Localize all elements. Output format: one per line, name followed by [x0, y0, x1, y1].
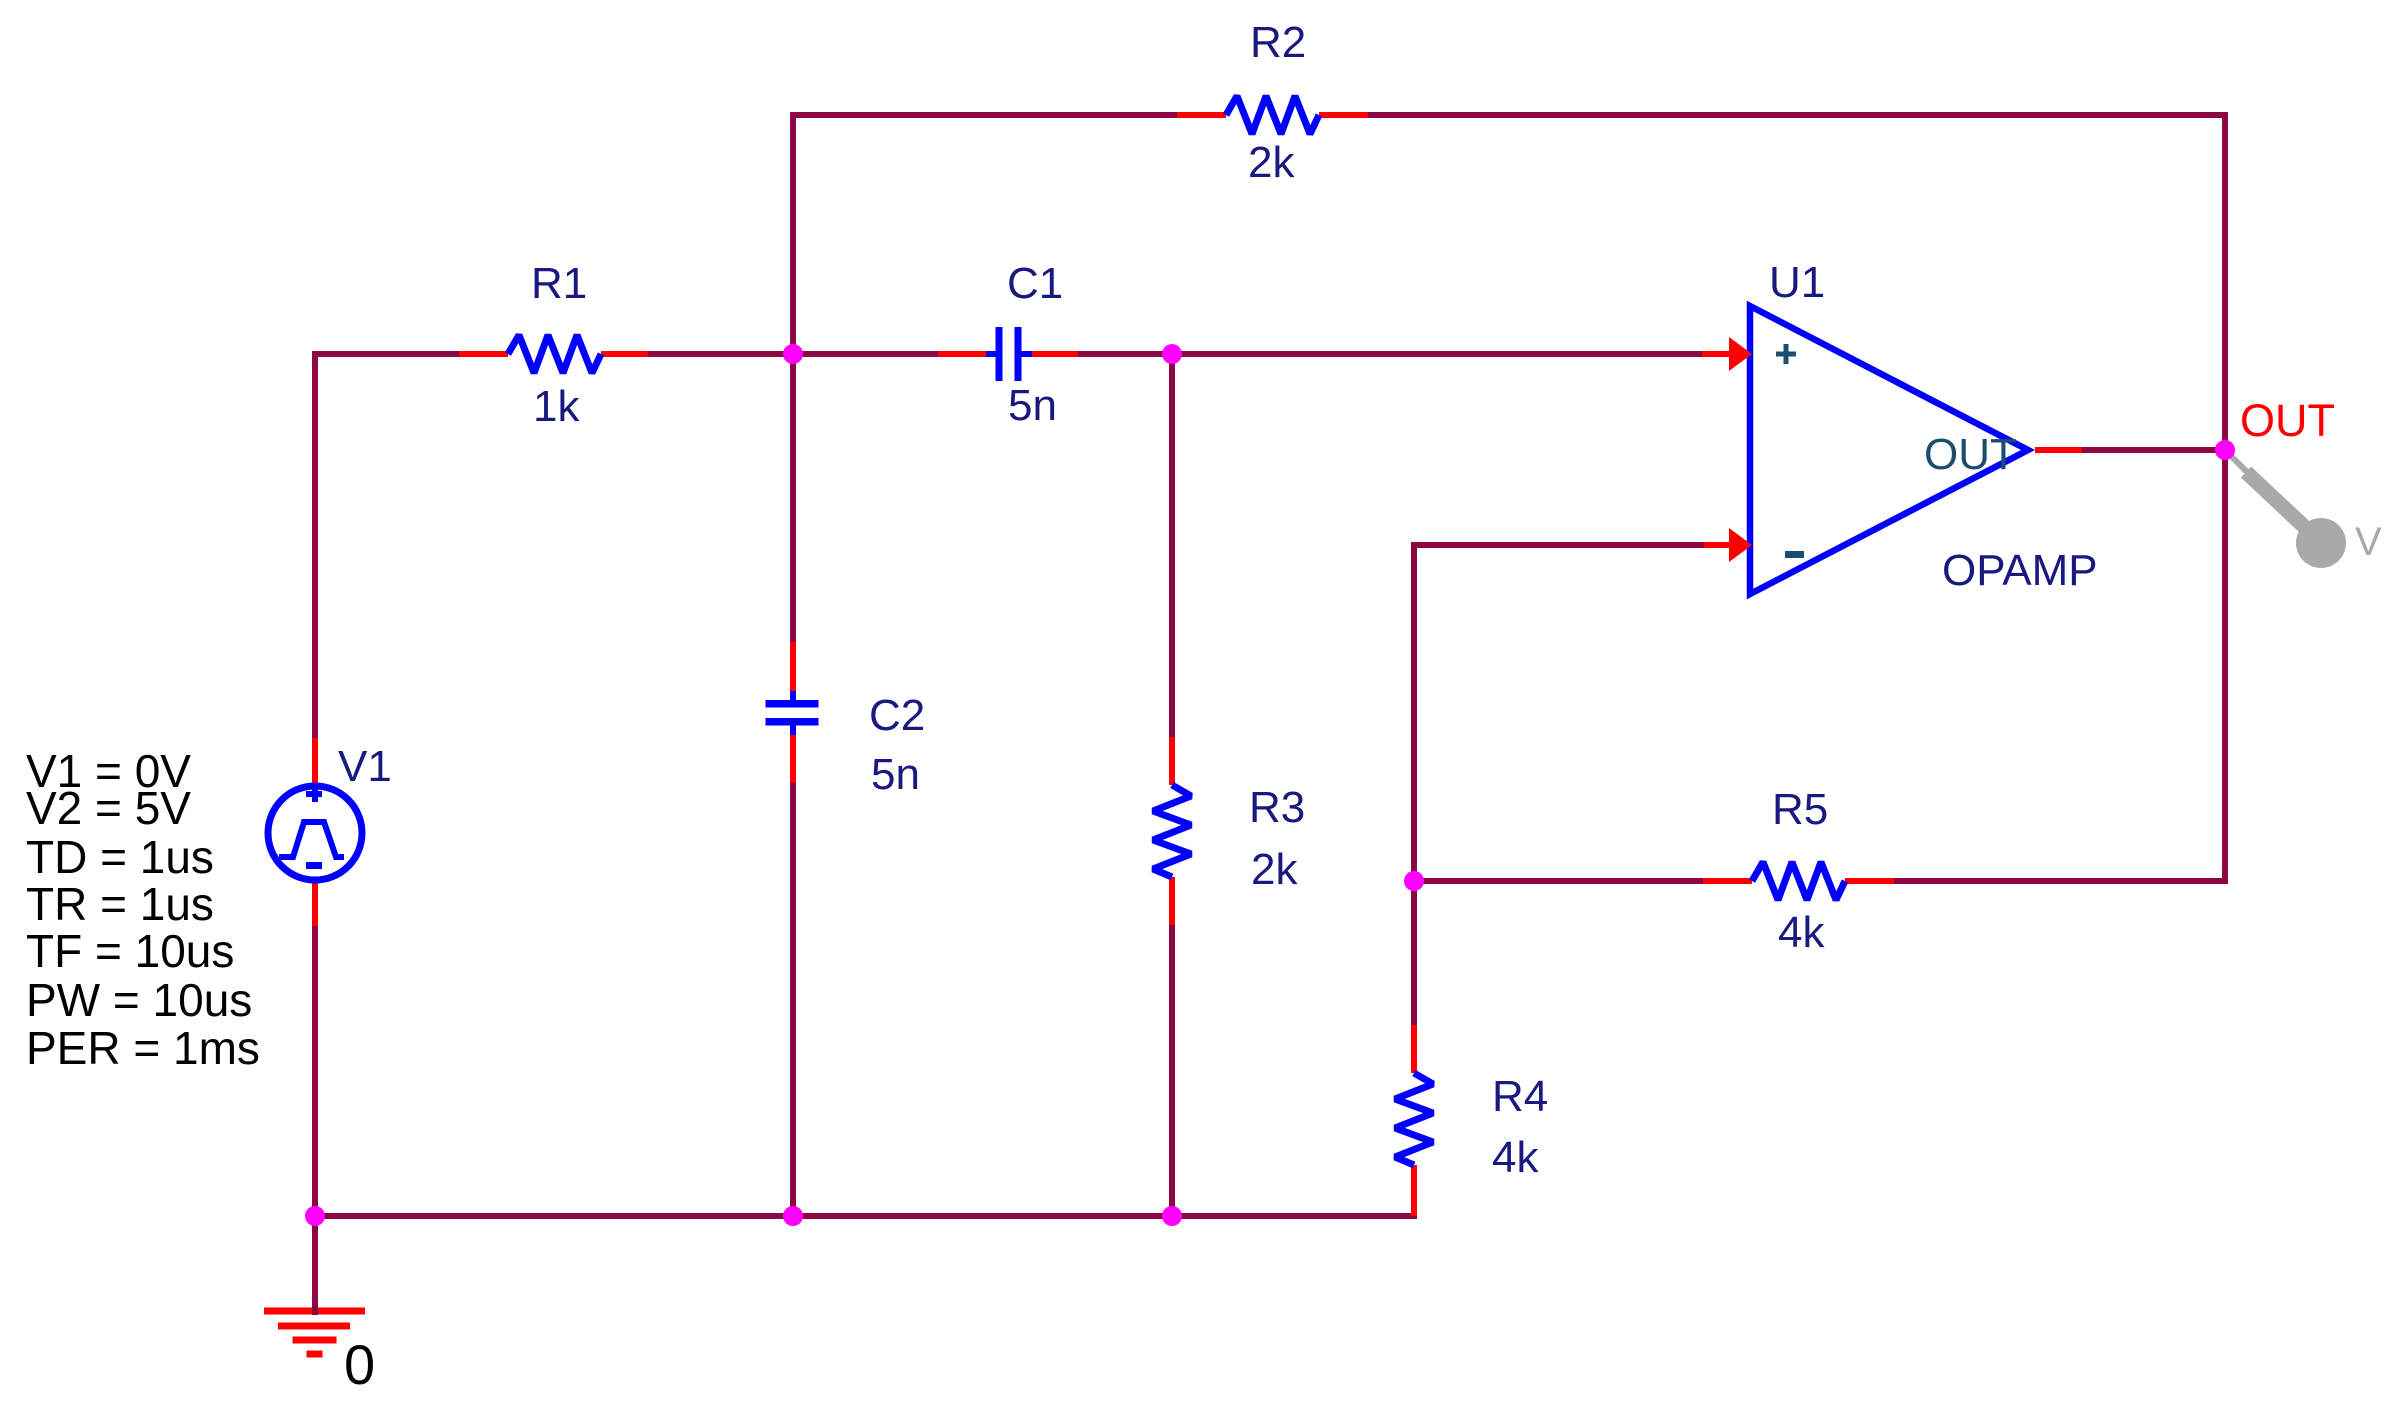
C2 top stub — [790, 691, 796, 702]
wire: vertical from feedback junction down to R4 top pin — [1411, 881, 1417, 1025]
R2 pin 1 lead — [1177, 112, 1226, 118]
R3 pin 1 lead — [1169, 737, 1175, 785]
R2 zigzag body — [1226, 96, 1319, 134]
V1 plus polarity mark — [306, 791, 322, 797]
svg-text:5n: 5n — [1008, 381, 1057, 430]
svg-text:1k: 1k — [533, 382, 580, 431]
wire: C2 branch bottom (C2 bottom pin to ground rail) — [790, 783, 796, 1216]
svg-text:2k: 2k — [1248, 138, 1295, 187]
capacitor C1 — [938, 259, 1078, 430]
svg-text:TR = 1us: TR = 1us — [26, 878, 214, 930]
C1 pin 2 lead — [1030, 351, 1078, 357]
U1 non-inverting input pin lead — [1702, 351, 1731, 357]
svg-text:PER = 1ms: PER = 1ms — [26, 1022, 260, 1074]
U1 minus input mark — [1785, 551, 1804, 558]
svg-text:OUT: OUT — [2240, 395, 2335, 446]
wire: op-amp output to OUT node — [2082, 447, 2228, 453]
probe tip stem — [2227, 452, 2250, 475]
svg-text:R2: R2 — [1250, 18, 1306, 67]
ground bar 3 — [293, 1337, 337, 1344]
resistor R1 — [459, 259, 648, 431]
svg-text:U1: U1 — [1769, 258, 1825, 307]
junction node OUT — [2215, 440, 2235, 460]
junction ground rail at R3 — [1162, 1206, 1182, 1226]
C2 bottom stub — [790, 724, 796, 735]
ground bar 4 — [307, 1351, 323, 1358]
U1 plus input mark — [1776, 352, 1796, 357]
probe head circle — [2296, 518, 2346, 568]
R3 pin 2 lead — [1169, 877, 1175, 925]
R1 zigzag body — [508, 335, 601, 373]
wire: V1 bottom vertical down to ground rail — [312, 926, 318, 1216]
svg-text:OUT: OUT — [1924, 430, 2017, 479]
wire: C2 branch top (node A down to C2 top pin) — [790, 354, 796, 642]
V1 pulse waveform glyph — [279, 822, 344, 857]
junction feedback node (R4/R5/-input) — [1404, 871, 1424, 891]
svg-text:R1: R1 — [531, 259, 587, 308]
R4 pin 1 lead — [1411, 1025, 1417, 1073]
junction node A (R1/C1/C2) — [783, 344, 803, 364]
wire: C1 right pin to op-amp non-inverting input — [1078, 351, 1702, 357]
wire: R1 right pin to C1 left pin — [648, 351, 938, 357]
wire: top rail left segment to R2 left pin — [790, 112, 1177, 118]
wire: R3 branch bottom (R3 bottom pin to ground rail) — [1169, 925, 1175, 1216]
svg-text:0: 0 — [344, 1333, 375, 1396]
wire: vertical inverting branch from minus-input corner down to feedback junction — [1411, 545, 1417, 881]
C1 right plate — [1015, 327, 1022, 381]
resistor R4 — [1395, 1025, 1548, 1216]
ground bar 1 — [264, 1308, 365, 1315]
wire: right vertical from OUT node down to R5 right corner — [2222, 450, 2228, 881]
V1 plus pin lead — [312, 738, 318, 787]
R5 zigzag body — [1752, 862, 1845, 900]
svg-text:OPAMP: OPAMP — [1942, 546, 2098, 595]
R5 pin 1 lead — [1703, 878, 1752, 884]
svg-text:R4: R4 — [1492, 1072, 1548, 1121]
wire: horizontal to op-amp inverting input — [1411, 542, 1704, 548]
voltage probe marker V — [2227, 452, 2382, 568]
junction ground rail at V1 — [305, 1206, 325, 1226]
wire: R3 branch top (node B down to R3 top pin) — [1169, 354, 1175, 737]
resistor R3 — [1153, 737, 1305, 925]
U1 non-inverting input pin arrow — [1729, 337, 1752, 371]
svg-text:5n: 5n — [871, 750, 920, 799]
R1 pin 2 lead — [601, 351, 648, 357]
R4 pin 2 lead — [1411, 1165, 1417, 1216]
U1 output pin lead — [2035, 447, 2082, 453]
svg-text:V1: V1 — [338, 742, 392, 791]
svg-text:V: V — [2355, 520, 2382, 564]
op-amp U1 — [1702, 258, 2098, 595]
svg-text:PW = 10us: PW = 10us — [26, 974, 252, 1026]
C2 pin 2 lead — [790, 734, 796, 783]
wire: ground stem below rail — [312, 1216, 318, 1311]
svg-text:C2: C2 — [869, 691, 925, 740]
ground bar 2 — [278, 1323, 350, 1330]
V1 minus polarity mark — [306, 862, 322, 869]
svg-text:R3: R3 — [1249, 783, 1305, 832]
V1 minus pin lead — [312, 879, 318, 926]
svg-text:TD = 1us: TD = 1us — [26, 831, 214, 883]
svg-text:C1: C1 — [1007, 259, 1063, 308]
C1 pin 1 lead — [938, 351, 986, 357]
wire: vertical from node A (R1/C1/C2 junction) up to top feedback rail — [790, 115, 796, 354]
svg-text:V2 = 5V: V2 = 5V — [26, 782, 191, 834]
wire: bottom ground rail — [315, 1213, 1417, 1219]
wire: horizontal from R5 left pin to feedback junction — [1414, 878, 1703, 884]
R2 pin 2 lead — [1319, 112, 1368, 118]
U1 inverting input pin lead — [1704, 542, 1731, 548]
svg-text:4k: 4k — [1778, 908, 1825, 957]
R1 pin 1 lead — [459, 351, 508, 357]
ground stem overlay — [312, 1305, 318, 1315]
R5 pin 2 lead — [1845, 878, 1894, 884]
resistor R5 — [1703, 785, 1894, 957]
C1 right stub — [1021, 351, 1032, 357]
wire: top rail right segment from R2 right pin to right corner — [1368, 112, 2225, 118]
wire: right vertical from top rail corner down to OUT node — [2222, 112, 2228, 450]
C1 left stub — [986, 351, 997, 357]
V1 circle body — [268, 786, 362, 880]
svg-text:TF = 10us: TF = 10us — [26, 925, 234, 977]
U1 triangle body — [1750, 306, 2028, 594]
junction node B (C1/R3/+input) — [1162, 344, 1182, 364]
svg-text:2k: 2k — [1251, 845, 1298, 894]
U1 inverting input pin arrow — [1729, 528, 1752, 562]
C2 pin 1 lead — [790, 642, 796, 691]
resistor R2 — [1177, 18, 1368, 187]
wire: horizontal from right corner to R5 right pin — [1894, 878, 2228, 884]
svg-text:R5: R5 — [1772, 785, 1828, 834]
junction ground rail at C2 — [783, 1206, 803, 1226]
probe handle — [2246, 472, 2311, 533]
wire: V1 top vertical — [312, 351, 318, 738]
capacitor C2 — [766, 642, 926, 799]
C1 left plate — [996, 327, 1003, 381]
ground symbol, net 0 — [264, 1305, 375, 1396]
V1 pulse parameter text block — [26, 745, 260, 1074]
wire: main input from V1 top corner to R1 left pin — [315, 351, 459, 357]
C2 top plate — [766, 700, 819, 708]
pulse voltage source V1 — [268, 738, 392, 926]
R3 zigzag body — [1153, 785, 1191, 877]
C2 bottom plate — [766, 718, 819, 726]
R4 zigzag body — [1395, 1073, 1433, 1165]
svg-text:4k: 4k — [1492, 1133, 1539, 1182]
